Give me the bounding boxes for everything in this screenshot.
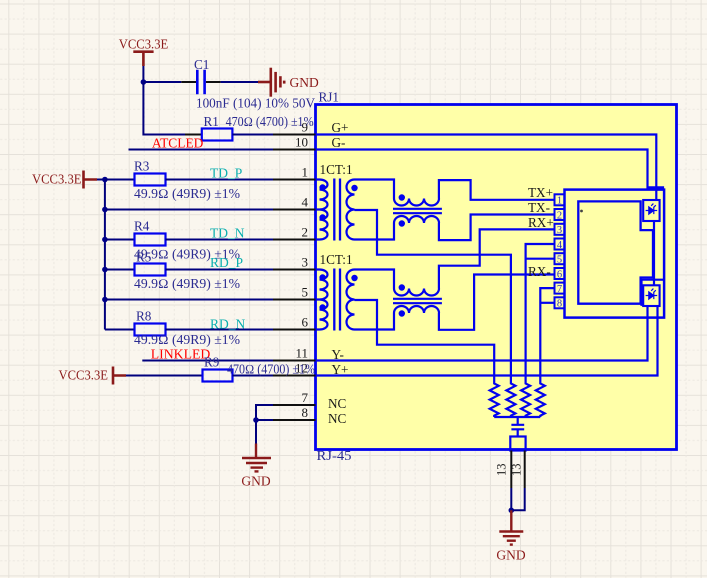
- wire T2 secondary top to choke L2: [355, 270, 395, 289]
- svg-text:3: 3: [302, 255, 309, 270]
- pin6 stub: [273, 329, 316, 331]
- svg-text:49.9Ω (49R9) ±1%: 49.9Ω (49R9) ±1%: [134, 186, 240, 201]
- wire jack pin5 branch: [526, 258, 555, 260]
- wire node to C1: [143, 81, 181, 83]
- jack pin square 6: [555, 268, 565, 280]
- pin1 stub: [273, 179, 316, 181]
- choke L2 bottom dot: [399, 310, 405, 316]
- svg-text:R9: R9: [204, 354, 220, 369]
- choke L1 bottom dot: [399, 220, 405, 226]
- power VCC3.3E left symbol: [32, 171, 97, 189]
- pin11 stub: [273, 360, 316, 362]
- wire VCC top to node: [142, 66, 144, 82]
- wire LED bracket: [642, 280, 665, 306]
- wire G+ internal (pin9 to green LED): [316, 135, 657, 201]
- wire bus to R3: [105, 179, 135, 181]
- svg-text:LINKLED: LINKLED: [151, 346, 211, 361]
- wire bus to pin4: [105, 209, 273, 211]
- terminator resistor RT3: [521, 382, 530, 417]
- wire RX+: [439, 229, 555, 288]
- svg-text:7: 7: [557, 284, 562, 295]
- svg-text:13: 13: [510, 464, 524, 477]
- LED D2 box (yellow): [643, 285, 659, 306]
- svg-text:3: 3: [557, 225, 562, 236]
- transformer T2 primary winding: [320, 270, 328, 330]
- svg-text:5: 5: [302, 285, 309, 300]
- junction dot bottom: [509, 508, 515, 514]
- svg-text:R4: R4: [134, 218, 150, 233]
- resistor R5 body: [135, 264, 166, 276]
- RJ45 jack outer rectangle: [565, 190, 665, 318]
- pin R1 left: [185, 134, 202, 136]
- power GND left symbol: [242, 444, 271, 472]
- wire VCC to R9: [126, 375, 203, 377]
- RJ45 jack inner shape: [578, 201, 653, 303]
- svg-text:4: 4: [557, 240, 563, 251]
- pin4 stub: [273, 209, 316, 211]
- wire R3 to pin1: [166, 179, 274, 181]
- svg-text:4: 4: [302, 195, 309, 210]
- svg-text:TD_P: TD_P: [210, 166, 242, 181]
- resistor R8 body: [135, 324, 166, 336]
- svg-text:RD_N: RD_N: [210, 316, 246, 331]
- pin 13 wires (black): [511, 451, 524, 489]
- junction dot row5: [102, 297, 108, 303]
- choke L1 top winding: [394, 199, 439, 206]
- pin3 stub: [273, 269, 316, 271]
- wire LED interconnect: [653, 221, 655, 285]
- LED D2 symbol: [646, 289, 658, 300]
- choke L2 top winding: [394, 289, 439, 296]
- jack pin square 8: [555, 297, 565, 309]
- svg-text:Y-: Y-: [332, 347, 344, 362]
- terminator resistor RT2: [506, 382, 515, 417]
- svg-text:1CT:1: 1CT:1: [320, 252, 353, 267]
- transformer T1 core: [334, 179, 340, 241]
- wire T2 secondary bottom to choke L2: [355, 313, 395, 330]
- svg-text:R5: R5: [136, 249, 152, 264]
- svg-text:1: 1: [557, 196, 562, 207]
- wire T2 center tap to R terminator: [355, 300, 495, 382]
- wire jack pin8 branch: [540, 302, 554, 304]
- svg-text:1: 1: [302, 165, 309, 180]
- wire TX+: [439, 180, 555, 200]
- power GND top symbol (rotated): [258, 68, 284, 97]
- artifact dot: [580, 210, 583, 213]
- LED D1 symbol: [646, 204, 658, 214]
- connector RJ1 body (yellow box): [316, 105, 677, 450]
- svg-text:11: 11: [295, 346, 308, 361]
- wire bus to pin5: [105, 299, 273, 301]
- pin2 stub: [273, 239, 316, 241]
- pin R1 right to pin9: [232, 134, 273, 136]
- jack pin square 5: [555, 253, 565, 265]
- transformer T1 primary dot 2: [319, 214, 325, 220]
- svg-text:470Ω (4700) ±1%: 470Ω (4700) ±1%: [226, 114, 314, 129]
- terminator bus: [494, 417, 540, 425]
- terminator resistor RT4: [536, 382, 545, 417]
- svg-text:1CT:1: 1CT:1: [320, 162, 353, 177]
- choke L1 bottom winding: [394, 216, 439, 223]
- transformer T2 primary dot 2: [319, 304, 325, 310]
- choke L1 core: [393, 209, 442, 213]
- svg-text:GND: GND: [496, 548, 525, 563]
- svg-text:G-: G-: [332, 135, 346, 150]
- jack pin square 3: [555, 224, 565, 236]
- choke L2 bottom winding: [394, 306, 439, 313]
- wire pins 7 8 to GND: [256, 405, 273, 444]
- junction dot row2: [102, 237, 108, 243]
- wire C1 to GND: [221, 81, 258, 83]
- terminator capacitor: [511, 425, 524, 437]
- svg-text:5: 5: [557, 255, 562, 266]
- resistor R1 body: [202, 129, 233, 141]
- bus vertical: [104, 180, 106, 330]
- svg-text:7: 7: [302, 390, 309, 405]
- resistor R4 body: [135, 234, 166, 246]
- svg-text:TD_N: TD_N: [210, 226, 245, 241]
- transformer T1 secondary dot: [351, 185, 357, 191]
- LED D1 box (green): [643, 200, 659, 221]
- svg-text:RX+: RX+: [528, 215, 554, 230]
- svg-text:Y+: Y+: [332, 362, 349, 377]
- svg-text:R8: R8: [136, 308, 152, 323]
- svg-text:VCC3.3E: VCC3.3E: [119, 37, 169, 52]
- svg-text:100nF (104) 10% 50V: 100nF (104) 10% 50V: [196, 95, 315, 110]
- pin 13 box: [510, 437, 525, 451]
- transformer T1 primary dot 1: [319, 184, 325, 190]
- transformer T2 secondary winding: [347, 270, 355, 330]
- pin5 stub: [273, 299, 316, 301]
- wire Y- internal (pin11 to yellow LED): [316, 306, 648, 361]
- svg-text:10: 10: [295, 135, 308, 150]
- capacitor C1: [197, 70, 204, 95]
- svg-text:R3: R3: [134, 158, 150, 173]
- svg-text:6: 6: [557, 269, 562, 280]
- transformer T1 secondary winding: [347, 180, 355, 240]
- svg-text:ATCLED: ATCLED: [152, 135, 204, 150]
- svg-text:49.9Ω (49R9) ±1%: 49.9Ω (49R9) ±1%: [134, 332, 240, 347]
- power GND bottom symbol: [499, 510, 523, 544]
- svg-text:GND: GND: [290, 75, 319, 90]
- transformer T1 primary stubs: [316, 180, 320, 240]
- resistor R3 body: [135, 174, 166, 186]
- junction dot C1 node: [141, 79, 147, 85]
- transformer T1 primary winding: [320, 180, 328, 240]
- wire VCC node down to R1: [143, 82, 185, 135]
- svg-text:NC: NC: [328, 396, 347, 411]
- power VCC3.3E top symbol: [119, 37, 169, 66]
- svg-text:RD_P: RD_P: [210, 255, 243, 270]
- svg-text:TX-: TX-: [528, 200, 550, 215]
- transformer T2 secondary dot: [351, 275, 357, 281]
- wire VCC left to bus: [97, 179, 105, 181]
- wire jack pin4 to terminator: [526, 244, 555, 382]
- pin C1 left: [181, 81, 196, 83]
- svg-text:2: 2: [302, 225, 309, 240]
- jack pin square 4: [555, 239, 565, 251]
- wire jack pin7 to terminator: [540, 288, 554, 382]
- power VCC3.3E lower left symbol: [59, 367, 127, 385]
- wire bus to R5: [105, 269, 135, 271]
- svg-text:2: 2: [557, 210, 562, 221]
- wire LINKLED to pin11: [142, 360, 273, 362]
- wire R5 to pin3: [166, 269, 274, 271]
- svg-text:G+: G+: [332, 120, 349, 135]
- wire Y+ internal (pin12): [316, 306, 658, 376]
- wire bus corner to R8: [105, 329, 135, 331]
- svg-text:8: 8: [557, 299, 562, 310]
- jack pin square 7: [555, 283, 565, 295]
- svg-text:NC: NC: [328, 411, 347, 426]
- jack pin square 1: [555, 194, 565, 206]
- pin10 stub: [273, 149, 316, 151]
- pin C1 right: [206, 81, 221, 83]
- transformer T2 primary dot 1: [319, 274, 325, 280]
- junction dot row4: [102, 207, 108, 213]
- transformer T2 core: [334, 269, 340, 331]
- svg-text:6: 6: [302, 315, 309, 330]
- wire G- internal (pin10): [316, 150, 665, 188]
- resistor R9 body: [203, 370, 233, 382]
- wire T1 secondary top to choke L1: [355, 180, 395, 199]
- svg-text:RX-: RX-: [528, 264, 551, 279]
- svg-text:8: 8: [302, 405, 309, 420]
- svg-text:RJ-45: RJ-45: [317, 448, 352, 463]
- wire T1 secondary bottom to choke L1: [355, 223, 395, 240]
- junction dot row1: [102, 177, 108, 183]
- svg-text:R1: R1: [204, 114, 219, 129]
- wire RX-: [439, 275, 555, 330]
- jack pin square 2: [555, 209, 565, 221]
- svg-text:49.9Ω (49R9) ±1%: 49.9Ω (49R9) ±1%: [134, 276, 240, 291]
- wire R8 to pin6: [166, 329, 274, 331]
- wire R9 to pin12: [233, 375, 274, 377]
- wire T1 center tap to R terminator: [355, 210, 511, 382]
- transformer T2 primary stubs: [316, 270, 320, 330]
- choke L2 top dot: [399, 284, 405, 290]
- svg-text:TX+: TX+: [528, 185, 553, 200]
- svg-text:GND: GND: [241, 473, 270, 488]
- svg-text:470Ω (4700) ±1%: 470Ω (4700) ±1%: [227, 361, 315, 376]
- svg-text:C1: C1: [194, 57, 209, 72]
- svg-text:VCC3.3E: VCC3.3E: [32, 171, 82, 186]
- svg-text:RJ1: RJ1: [319, 90, 340, 105]
- terminator resistor RT1: [490, 382, 499, 417]
- wire TX-: [439, 215, 555, 241]
- svg-text:VCC3.3E: VCC3.3E: [59, 367, 109, 382]
- choke L1 top dot: [399, 194, 405, 200]
- junction dot row3: [102, 267, 108, 273]
- svg-text:13: 13: [495, 464, 509, 477]
- choke L2 core: [393, 299, 442, 303]
- wire ATCLED to pin10: [129, 149, 274, 151]
- wire bus to R4: [105, 239, 135, 241]
- junction dot pin8: [253, 417, 259, 423]
- wire R4 to pin2: [166, 239, 274, 241]
